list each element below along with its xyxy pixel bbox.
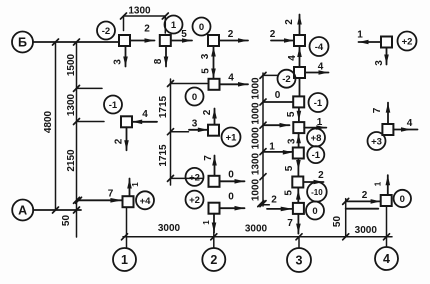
svg-text:-4: -4 bbox=[315, 42, 324, 53]
arrow right 4 of node A2a bbox=[220, 73, 249, 87]
svg-text:5: 5 bbox=[284, 165, 295, 171]
arrow 7 into node A-row-1 bbox=[76, 189, 123, 204]
svg-text:3: 3 bbox=[287, 138, 298, 144]
axis A stub near axis 4 bbox=[346, 208, 379, 210]
settlement circle +2 bbox=[186, 168, 204, 186]
svg-text:3: 3 bbox=[192, 118, 198, 129]
settlement circle -2 bbox=[97, 22, 115, 40]
dimension 50 near axis 4 bbox=[332, 198, 349, 236]
link arrow up 5 between C5 and C6 bbox=[284, 188, 301, 203]
settlement circle -1 bbox=[309, 93, 328, 112]
column node A-row-1 bbox=[123, 196, 134, 207]
dimension line 1000x4+1300 bbox=[251, 72, 278, 206]
axis circle А bbox=[12, 200, 33, 221]
stub and tick for 2 arrow bbox=[258, 201, 270, 207]
axis circle 2 bbox=[202, 248, 225, 271]
settlement circle -10 bbox=[307, 182, 327, 202]
svg-text:3: 3 bbox=[200, 53, 211, 59]
svg-text:8: 8 bbox=[153, 58, 164, 64]
arrow left-in 4 of node mid1 bbox=[132, 109, 157, 124]
svg-text:2: 2 bbox=[362, 190, 368, 201]
svg-text:50: 50 bbox=[332, 216, 343, 228]
svg-text:1: 1 bbox=[357, 30, 363, 41]
svg-text:2: 2 bbox=[318, 170, 324, 181]
svg-text:1: 1 bbox=[121, 253, 128, 267]
arrow up 1 of node A-row-1 bbox=[127, 179, 140, 197]
column node B2 bbox=[160, 35, 171, 46]
column node A2b bbox=[208, 125, 219, 136]
arrow left-in 2 of node D2 bbox=[347, 190, 381, 204]
column node C2 bbox=[293, 96, 304, 107]
settlement circle -2 bbox=[278, 70, 296, 88]
svg-text:4: 4 bbox=[142, 109, 148, 120]
svg-text:1: 1 bbox=[131, 182, 140, 187]
column node A2a bbox=[209, 79, 220, 90]
svg-text:3: 3 bbox=[113, 59, 124, 65]
arrow down 7 of node C6 bbox=[287, 215, 300, 234]
svg-text:50: 50 bbox=[61, 215, 72, 227]
svg-text:2: 2 bbox=[271, 194, 277, 205]
svg-text:4: 4 bbox=[287, 55, 298, 61]
leader axis1 bbox=[126, 207, 128, 247]
svg-text:-2: -2 bbox=[102, 26, 110, 37]
svg-text:2: 2 bbox=[210, 253, 217, 267]
arrow down 1 of node A2d bbox=[202, 214, 216, 233]
bottom dimension line 3000/3000/50/3000 bbox=[122, 223, 393, 240]
svg-text:0: 0 bbox=[192, 92, 197, 103]
settlement circle -1 bbox=[307, 146, 324, 163]
axis circle Б bbox=[12, 32, 33, 53]
dimension line 1500/1300/2150/50 bbox=[61, 39, 104, 237]
column node C6 bbox=[293, 203, 304, 214]
arrow left-in 2 of node C6 bbox=[267, 194, 293, 211]
arrow down 5 of node C4 bbox=[284, 159, 301, 177]
settlement circle -4 bbox=[310, 37, 329, 56]
svg-text:1: 1 bbox=[171, 20, 177, 31]
settlement circle 1 bbox=[165, 16, 183, 34]
svg-text:+2: +2 bbox=[189, 172, 200, 183]
arrow right 1 of node C3 bbox=[304, 117, 326, 130]
svg-text:4: 4 bbox=[228, 73, 234, 84]
column node mid1 bbox=[121, 116, 132, 127]
arrow left 0 of node C2 bbox=[263, 90, 293, 102]
svg-text:2: 2 bbox=[114, 138, 125, 144]
dimension 1300 top bbox=[121, 6, 169, 34]
arrow down 3 of node B5 bbox=[374, 48, 389, 66]
arrow down 5 of node C2 bbox=[286, 107, 301, 120]
arrow up 2 of node B4 bbox=[284, 15, 302, 36]
svg-text:2: 2 bbox=[202, 109, 213, 115]
link C1-C2 bbox=[299, 78, 301, 96]
column node C5 bbox=[292, 177, 303, 188]
settlement circle +3 bbox=[368, 132, 386, 150]
svg-text:0: 0 bbox=[275, 90, 281, 101]
column node B5 bbox=[381, 37, 392, 48]
svg-text:2: 2 bbox=[228, 29, 234, 40]
arrow left-in 1 of node C4 bbox=[263, 142, 293, 155]
arrow down 8 of node B2 bbox=[153, 46, 168, 67]
svg-text:-1: -1 bbox=[314, 98, 323, 109]
column node C4 bbox=[293, 148, 304, 159]
svg-text:7: 7 bbox=[203, 155, 214, 161]
svg-text:А: А bbox=[18, 204, 27, 218]
svg-text:2: 2 bbox=[144, 23, 150, 34]
svg-text:3000: 3000 bbox=[158, 223, 181, 234]
arrow right 4 of node C1 bbox=[305, 62, 329, 75]
arrow right 2 of node B3 bbox=[219, 29, 248, 43]
settlement circle +8 bbox=[307, 129, 325, 147]
column node C1 bbox=[294, 67, 305, 78]
settlement circle 0 bbox=[186, 88, 204, 106]
svg-text:5: 5 bbox=[286, 111, 297, 117]
svg-text:4800: 4800 bbox=[43, 110, 54, 133]
svg-text:7: 7 bbox=[287, 218, 293, 229]
svg-text:0: 0 bbox=[199, 22, 204, 33]
svg-text:+2: +2 bbox=[402, 37, 413, 48]
svg-text:1000: 1000 bbox=[251, 102, 262, 125]
svg-text:1000: 1000 bbox=[251, 77, 262, 100]
settlement circle 0 bbox=[394, 190, 411, 207]
column node A2c bbox=[209, 176, 220, 187]
svg-text:4: 4 bbox=[383, 252, 390, 266]
settlement circle +2 bbox=[186, 191, 204, 209]
arrow up 2 of node A2b bbox=[202, 109, 217, 125]
settlement circle -1 bbox=[104, 96, 122, 114]
leader axis3 bbox=[298, 237, 300, 248]
leader axis2 bbox=[213, 233, 215, 248]
svg-text:5: 5 bbox=[284, 190, 295, 196]
settlement circle +2 bbox=[398, 32, 417, 51]
svg-text:2: 2 bbox=[284, 19, 295, 25]
svg-text:-1: -1 bbox=[109, 100, 118, 111]
svg-text:1: 1 bbox=[374, 181, 383, 186]
svg-text:1715: 1715 bbox=[158, 95, 169, 118]
svg-text:2150: 2150 bbox=[66, 149, 77, 172]
svg-text:7: 7 bbox=[372, 107, 383, 113]
column node D2 bbox=[381, 195, 392, 206]
settlement circle +1 bbox=[222, 128, 241, 147]
axis line Б bbox=[33, 41, 119, 43]
column node B1 bbox=[119, 35, 130, 46]
column node B3 bbox=[208, 35, 219, 46]
svg-text:-2: -2 bbox=[282, 74, 290, 85]
link arrows 3/5 between B3 and node A2a bbox=[200, 46, 216, 79]
svg-text:+4: +4 bbox=[140, 196, 152, 207]
axis line А bbox=[33, 209, 81, 211]
svg-text:+1: +1 bbox=[226, 133, 238, 144]
svg-text:3: 3 bbox=[374, 60, 385, 66]
arrow down 3 of node B1 bbox=[113, 46, 128, 67]
settlement circle 0 bbox=[306, 202, 324, 220]
arrow left-in 2 of node B4 bbox=[270, 29, 294, 43]
svg-text:-10: -10 bbox=[311, 188, 323, 197]
svg-text:+8: +8 bbox=[311, 133, 322, 144]
svg-text:5: 5 bbox=[181, 29, 187, 40]
link arrow up 3 between C3 and C4 bbox=[287, 133, 301, 147]
arrow up 1 of node D2 bbox=[374, 175, 391, 195]
arrow up 7 of node A2c bbox=[203, 155, 217, 176]
axis circle 3 bbox=[287, 248, 311, 272]
arrow right 0 of node A2d bbox=[220, 192, 245, 211]
svg-text:3000: 3000 bbox=[245, 223, 268, 234]
svg-text:1300: 1300 bbox=[251, 152, 262, 175]
link arrow 4 between B4 and C1 bbox=[287, 46, 302, 67]
arrow down 2 of node mid1 bbox=[114, 127, 129, 150]
svg-text:1300: 1300 bbox=[66, 93, 77, 116]
arrow left-in 3 of node A2b bbox=[189, 118, 208, 132]
svg-text:0: 0 bbox=[400, 194, 405, 205]
settlement circle 0 bbox=[193, 18, 211, 36]
svg-text:4: 4 bbox=[407, 118, 413, 129]
column node A2d bbox=[209, 203, 220, 214]
svg-text:1: 1 bbox=[202, 220, 211, 225]
svg-text:1: 1 bbox=[269, 142, 275, 153]
svg-text:3000: 3000 bbox=[355, 225, 378, 236]
svg-text:+3: +3 bbox=[371, 137, 382, 148]
column node B4 bbox=[294, 35, 305, 46]
svg-text:+2: +2 bbox=[189, 195, 200, 206]
svg-text:7: 7 bbox=[108, 189, 114, 200]
svg-text:Б: Б bbox=[18, 36, 27, 50]
svg-text:1300: 1300 bbox=[128, 6, 151, 17]
svg-text:1: 1 bbox=[317, 117, 323, 128]
arrow right 2 of node C5 bbox=[303, 170, 324, 184]
svg-text:-1: -1 bbox=[312, 150, 321, 161]
arrow right 4 of node D1 bbox=[393, 118, 417, 132]
arrow left 1 of node B5 bbox=[357, 30, 381, 45]
svg-text:1500: 1500 bbox=[66, 53, 77, 76]
svg-text:2: 2 bbox=[270, 29, 276, 40]
svg-text:1715: 1715 bbox=[158, 144, 169, 167]
axis circle 4 bbox=[375, 247, 398, 270]
arrow right 2 of node B1 bbox=[130, 23, 155, 43]
column node C3 bbox=[293, 122, 304, 133]
svg-text:0: 0 bbox=[228, 192, 234, 203]
svg-text:1000: 1000 bbox=[251, 127, 262, 150]
svg-text:1000: 1000 bbox=[251, 178, 262, 201]
leader axis4 bbox=[386, 206, 388, 247]
svg-text:4: 4 bbox=[318, 62, 324, 73]
arrow left-in of node C3 bbox=[263, 123, 290, 128]
svg-text:0: 0 bbox=[312, 206, 317, 217]
dimension line 4800 bbox=[43, 39, 59, 213]
column node D1 bbox=[382, 124, 393, 135]
dimension line 1715/1715 bbox=[158, 79, 207, 185]
settlement circle +4 bbox=[136, 191, 154, 209]
svg-text:5: 5 bbox=[201, 68, 212, 74]
svg-text:0: 0 bbox=[228, 169, 234, 180]
svg-text:3: 3 bbox=[296, 254, 303, 268]
arrow right 0 of node A2c bbox=[220, 169, 245, 183]
axis circle 1 bbox=[113, 248, 136, 271]
arrow right 5 of node B2 bbox=[171, 29, 192, 43]
arrow up 7 of node D1 bbox=[372, 103, 390, 124]
